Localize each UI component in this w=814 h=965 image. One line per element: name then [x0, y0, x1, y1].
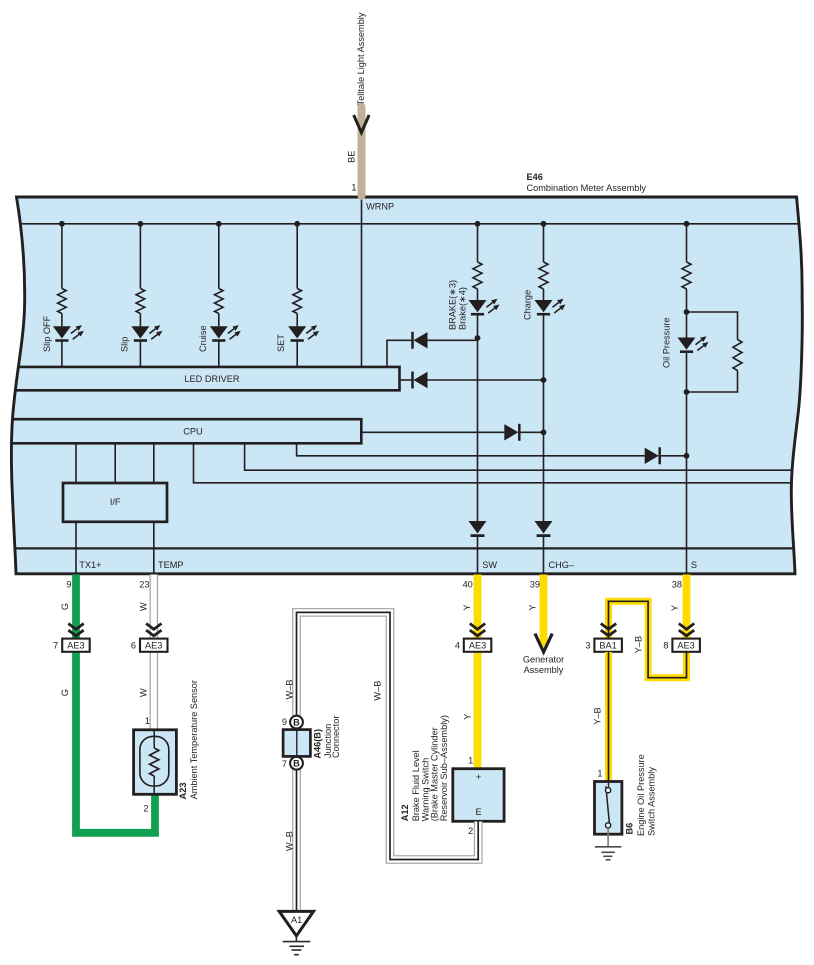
Y-B wire loop from 8 AE3 to 3 BA1 [609, 601, 687, 677]
svg-text:A12: A12 [400, 804, 410, 821]
svg-text:39: 39 [530, 580, 540, 590]
wires CPU to I/F [76, 444, 154, 484]
label Generator Assembly [523, 655, 564, 675]
I/F box [63, 483, 167, 522]
svg-text:Y–B: Y–B [593, 707, 603, 724]
LED Slip [131, 325, 162, 340]
E46 label [527, 172, 647, 193]
resistor Oil Pressure [682, 262, 691, 289]
svg-text:8: 8 [663, 641, 668, 651]
svg-text:2: 2 [468, 826, 473, 836]
ground A1 [279, 911, 313, 936]
svg-text:Slip: Slip [119, 337, 129, 352]
svg-text:CHG–: CHG– [549, 560, 575, 570]
svg-text:6: 6 [131, 641, 136, 651]
svg-text:Oil Pressure: Oil Pressure [662, 317, 672, 368]
wire diode 4 to S line [661, 455, 687, 457]
svg-text:Switch Assembly: Switch Assembly [647, 767, 657, 836]
resistor Cruise [215, 289, 224, 314]
svg-text:Engine Oil Pressure: Engine Oil Pressure [636, 754, 646, 836]
wire I/F to TX1+ pin [75, 521, 77, 573]
connector 8 AE3 [663, 639, 700, 652]
svg-text:4: 4 [455, 641, 460, 651]
svg-text:Y: Y [462, 714, 472, 720]
telltale wire BE (tan) [358, 107, 366, 196]
chevron arrow on W wire [146, 624, 161, 636]
yellow wire Y from CHG- to generator [540, 575, 548, 648]
resistor SET [293, 289, 302, 314]
svg-text:Assembly: Assembly [524, 665, 564, 675]
green wire G from TX1+ to A23 [76, 575, 155, 833]
A12 brake fluid level warning switch [453, 755, 504, 836]
diode D1 (left) [413, 332, 428, 349]
svg-text:38: 38 [672, 580, 682, 590]
junction dot S/diode4 [684, 453, 690, 459]
resistor BRAKE [473, 262, 482, 289]
wire diode to CHG- pin [543, 536, 545, 573]
svg-text:W: W [138, 688, 148, 697]
connector 4 AE3 [455, 639, 491, 652]
svg-text:W: W [138, 602, 148, 611]
label B6 block [625, 754, 657, 836]
diode D3 (right) [504, 424, 519, 441]
svg-text:Slip OFF: Slip OFF [42, 315, 52, 352]
svg-text:+: + [476, 772, 481, 782]
svg-text:W–B: W–B [285, 831, 295, 851]
wire CPU bus out 1 [245, 444, 805, 471]
svg-text:AE3: AE3 [145, 641, 162, 651]
svg-text:A46(B): A46(B) [313, 729, 323, 759]
wire diode 1 to BRAKE line [428, 339, 478, 341]
LED Cruise [210, 325, 241, 340]
svg-text:Generator: Generator [523, 655, 564, 665]
diode to CHG- (down) [535, 521, 553, 536]
svg-text:W–B: W–B [373, 681, 383, 701]
svg-text:23: 23 [139, 580, 149, 590]
svg-text:LED DRIVER: LED DRIVER [184, 374, 240, 384]
svg-text:TX1+: TX1+ [79, 560, 101, 570]
svg-text:3: 3 [585, 641, 590, 651]
junction dot BRAKE/diode [475, 335, 481, 341]
svg-text:E: E [476, 807, 482, 817]
wire CPU to diode 4 [297, 444, 645, 456]
resistor inside A23 [150, 748, 159, 776]
wire diode to SW pin [477, 536, 479, 573]
chevron arrow on BA1 wire [601, 624, 616, 636]
wire CPU to diode 3 [361, 431, 504, 433]
svg-text:SET: SET [276, 334, 286, 352]
LED SET [288, 325, 319, 340]
LED Oil Pressure [678, 336, 709, 351]
label A46(B) block [313, 716, 342, 759]
svg-text:TEMP: TEMP [158, 560, 184, 570]
junction dots Charge [541, 377, 547, 383]
wire LED DRIVER to diode 1 [387, 340, 411, 367]
LED Slip OFF [53, 325, 84, 340]
resistor Slip [136, 289, 145, 314]
chevron arrow on S wire [679, 624, 694, 636]
label BRAKE(*3) Brake(*4) [447, 280, 467, 330]
wire I/F to TEMP pin [153, 521, 155, 573]
svg-text:9: 9 [66, 580, 71, 590]
switch inside B6 [606, 782, 611, 829]
resistor Slip OFF [58, 289, 67, 314]
LED BRAKE [469, 299, 500, 314]
parallel resistor [733, 340, 742, 371]
svg-text:A1: A1 [291, 915, 302, 925]
W-B wire big loop (A46(B) / A12 / ground) [297, 612, 479, 859]
wire LED DRIVER to diode 2 [400, 379, 412, 381]
LED Charge [535, 299, 566, 314]
yellow wire Y from S [683, 575, 691, 641]
LED branch Cruise : wire [218, 224, 220, 367]
branch BRAKE : wire [477, 224, 479, 521]
wire WRNP pin line [361, 199, 363, 367]
svg-text:1: 1 [351, 183, 356, 193]
svg-text:CPU: CPU [183, 427, 202, 437]
svg-text:40: 40 [463, 580, 473, 590]
svg-text:BA1: BA1 [599, 641, 616, 651]
W-B wire A46(B) to ground A1 [292, 769, 301, 911]
branch Oil Pressure : wire [686, 224, 688, 573]
svg-text:9: 9 [282, 717, 287, 727]
A46(B) junction connector [282, 716, 311, 770]
svg-text:SW: SW [482, 560, 497, 570]
junction dots on bus [59, 221, 689, 227]
svg-text:1: 1 [468, 755, 473, 765]
diode D4 (right) [645, 447, 660, 464]
svg-text:Y: Y [462, 604, 472, 610]
svg-text:A23: A23 [178, 783, 188, 800]
svg-text:7: 7 [53, 641, 58, 651]
svg-text:G: G [60, 689, 70, 696]
chevron arrow on SW wire [470, 624, 485, 636]
svg-text:1: 1 [145, 716, 150, 726]
svg-text:G: G [60, 603, 70, 610]
connector 7 AE3 [53, 639, 90, 652]
svg-text:AE3: AE3 [677, 641, 694, 651]
svg-text:Reservoir Sub–Assembly): Reservoir Sub–Assembly) [439, 715, 449, 821]
svg-text:2: 2 [143, 804, 148, 814]
diode D2 (left) [413, 372, 428, 389]
wire top bus [8, 223, 808, 225]
svg-text:BE: BE [347, 151, 357, 163]
svg-text:7: 7 [282, 759, 287, 769]
svg-text:Y–B: Y–B [633, 636, 643, 653]
wire diode 2 to Charge line [428, 379, 544, 381]
B6 engine oil pressure switch [595, 769, 622, 835]
arrow to generator assembly [535, 634, 552, 652]
ground below B6 [595, 828, 622, 860]
svg-text:B: B [293, 759, 300, 769]
LED DRIVER box [6, 367, 400, 390]
branch Charge : wire [543, 224, 545, 521]
svg-text:Connector: Connector [331, 716, 341, 758]
wire diode 3 to Charge line [521, 431, 544, 433]
CPU box [6, 419, 361, 443]
A23 ambient temperature sensor [134, 716, 177, 814]
diode to SW (down) [469, 521, 487, 536]
parallel resistor branch wires [687, 312, 738, 392]
connector 3 BA1 [585, 639, 622, 652]
pin strip inner line [10, 547, 800, 549]
svg-text:Brake(∗4): Brake(∗4) [458, 287, 468, 330]
svg-text:Y: Y [527, 604, 537, 610]
svg-text:Combination Meter Assembly: Combination Meter Assembly [527, 183, 647, 193]
svg-text:BRAKE(∗3): BRAKE(∗3) [447, 280, 457, 330]
svg-text:WRNP: WRNP [366, 202, 394, 212]
svg-text:AE3: AE3 [67, 641, 84, 651]
svg-text:AE3: AE3 [469, 641, 486, 651]
svg-text:1: 1 [597, 769, 602, 779]
resistor Charge [539, 262, 548, 289]
svg-text:Cruise: Cruise [198, 325, 208, 352]
yellow wire Y from SW to A12 [474, 575, 482, 769]
LED branch SET : wire [296, 224, 298, 367]
svg-text:Charge: Charge [522, 290, 532, 320]
connector 6 AE3 [131, 639, 168, 652]
white wire W from TEMP to A23 [150, 575, 159, 731]
combination meter assembly box E46 [11, 197, 802, 574]
arrow on BE wire [354, 115, 369, 133]
svg-text:B: B [293, 717, 300, 727]
svg-text:S: S [691, 560, 697, 570]
ground symbol below A1 [283, 936, 311, 955]
svg-text:Ambient Temperature Sensor: Ambient Temperature Sensor [189, 680, 199, 799]
LED branch Slip OFF : wire [61, 224, 63, 367]
svg-text:Y: Y [670, 605, 680, 611]
svg-text:I/F: I/F [110, 497, 121, 507]
chevron arrow on G wire [68, 624, 83, 636]
svg-text:E46: E46 [527, 172, 543, 182]
svg-text:B6: B6 [625, 823, 635, 835]
Y-B wire BA1 to B6 [605, 652, 612, 782]
LED branch Slip : wire [139, 224, 141, 367]
svg-text:W–B: W–B [285, 679, 295, 699]
wire CPU bus out 2 [194, 444, 806, 483]
label A12 block [400, 715, 449, 821]
junction dots Oil [684, 309, 690, 315]
svg-text:Telltale Light Assembly: Telltale Light Assembly [356, 12, 366, 105]
